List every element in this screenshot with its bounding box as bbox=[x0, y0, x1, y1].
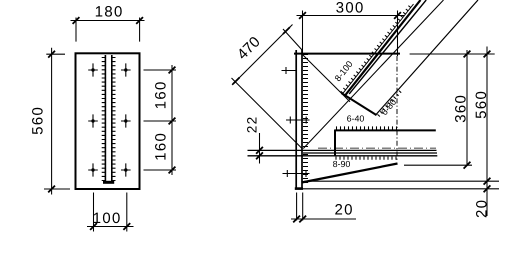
weld seam line along brace bbox=[343, 4, 414, 93]
brace end cut bbox=[342, 93, 377, 115]
dim 20 bottom: text bbox=[335, 204, 352, 215]
dim 360: ticks bbox=[464, 51, 471, 58]
end plate 180x560 (left view outline) bbox=[76, 53, 140, 189]
dim 560: extension lines bbox=[44, 54, 70, 189]
member lower flange line B bbox=[303, 152, 437, 154]
dim 300: left extension bbox=[302, 11, 304, 54]
label 6-40 bbox=[347, 115, 364, 121]
label 8-100 bbox=[334, 60, 353, 81]
dim 160 lower text bbox=[155, 134, 166, 160]
dim 20 right: text bbox=[476, 201, 487, 218]
dim 22: dimension line bbox=[259, 133, 261, 164]
crossing mark upper on plate bbox=[282, 67, 297, 74]
dim 300: ticks bbox=[299, 12, 306, 19]
bolt at 125.8,70 bbox=[121, 63, 131, 76]
weld seam left line bbox=[104, 55, 106, 183]
bolt at 93,121 bbox=[88, 114, 98, 127]
dim 470: extension line from brace root to lower-left bbox=[232, 78, 303, 149]
dim 560 right: text bbox=[476, 92, 487, 118]
gusset end plate: right edge bbox=[301, 50, 303, 189]
dim 22: ticks bbox=[256, 147, 263, 154]
member dash-dot centerline bbox=[318, 147, 436, 149]
weld hatch ticks (left side) bbox=[102, 58, 106, 181]
crossing mark lower on plate bbox=[283, 170, 310, 177]
member lower flange line C (to 22 dim) bbox=[248, 155, 438, 157]
weld comb above member top edge bbox=[337, 126, 397, 129]
dim 20 bottom: dimension line bbox=[291, 218, 356, 220]
weld comb ticks along brace bbox=[341, 6, 411, 94]
weld hatch ticks (right side) bbox=[112, 58, 116, 181]
dim 560: ticks bbox=[48, 51, 55, 58]
weld seam right line bbox=[111, 55, 113, 183]
dim 560 right: ticks bbox=[484, 51, 491, 58]
dim 300: dimension line bbox=[297, 15, 405, 17]
dim 100: ticks bbox=[90, 223, 97, 230]
dims 160: ticks bbox=[169, 67, 176, 74]
gusset end plate: left edge bbox=[295, 50, 297, 189]
extension line y189 bbox=[303, 188, 499, 190]
dim 100: extension lines bbox=[94, 193, 127, 232]
dim 560: text bbox=[32, 108, 43, 134]
dim 20 bottom: extension lines bbox=[297, 193, 303, 221]
dim 470: text bbox=[236, 36, 261, 61]
dim 160 upper text bbox=[155, 82, 166, 108]
dim 560 right: dimension line bbox=[486, 47, 488, 217]
dim 470: upper extension from gusset corner bbox=[283, 29, 303, 51]
gusset sloped bottom edge bbox=[302, 164, 398, 183]
bolt at 125.8,170 bbox=[121, 163, 131, 176]
gusset top edge bbox=[294, 53, 400, 55]
extension line y181 bbox=[305, 180, 500, 182]
bolt at 93,70 bbox=[88, 63, 98, 76]
dim 470: dimension line bbox=[232, 25, 293, 86]
gusset end plate: bottom cap bbox=[295, 187, 303, 190]
dim 100: text bbox=[94, 213, 120, 224]
dashed centerline vertical bbox=[396, 56, 398, 160]
horizontal member left edge bbox=[334, 130, 336, 157]
dim 22: text bbox=[247, 118, 256, 133]
dim 300: right extension bbox=[397, 11, 399, 57]
label 8-90 bbox=[333, 161, 350, 167]
weld comb along brace bottom edge bbox=[378, 91, 402, 117]
dim 360: dimension line bbox=[466, 50, 468, 165]
dim 360: text bbox=[455, 96, 466, 122]
member lower flange line A (to 22 dim) bbox=[248, 149, 437, 151]
thin line gusset corner to brace tip bbox=[303, 55, 350, 102]
crossing mark middle on plate bbox=[286, 117, 310, 124]
dim 100: dimension line bbox=[87, 226, 134, 228]
dim 180: dimension line bbox=[71, 20, 145, 22]
dim 180: ticks bbox=[73, 17, 80, 24]
dim 180: extension lines bbox=[76, 18, 140, 42]
dim 180: text bbox=[96, 6, 122, 17]
label 6-80 bbox=[381, 98, 397, 115]
brace bottom edge bbox=[376, 0, 479, 115]
dims 160/160: dimension line bbox=[171, 65, 173, 175]
extension line for 360 bottom bbox=[404, 164, 472, 166]
bolt at 125.8,121 bbox=[121, 114, 131, 127]
weld comb below member bottom bbox=[336, 157, 396, 160]
top extension line to right dims bbox=[410, 53, 495, 55]
weld ticks on plate right face bbox=[303, 55, 308, 183]
dim 300: text bbox=[336, 2, 362, 13]
brace second edge bbox=[349, 0, 426, 94]
brace top edge (thick) bbox=[345, 0, 421, 96]
dims 160/160: extension lines bbox=[144, 70, 177, 170]
weld seam bottom cap bbox=[103, 181, 114, 184]
dim 20 bottom: ticks bbox=[293, 216, 300, 223]
dim 470: ticks bbox=[233, 78, 240, 85]
dim 560: dimension line bbox=[51, 48, 53, 195]
bolt at 93,170 bbox=[88, 163, 98, 176]
brace inner thin line from plate face bbox=[303, 0, 443, 149]
horizontal member top edge bbox=[335, 129, 436, 131]
